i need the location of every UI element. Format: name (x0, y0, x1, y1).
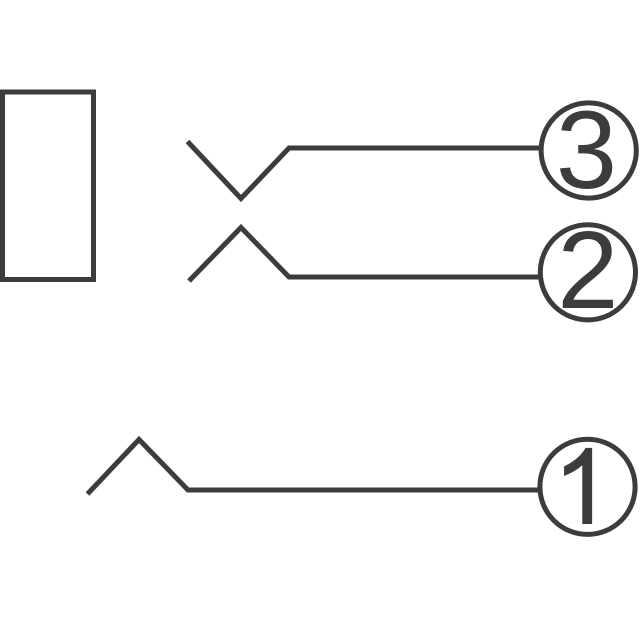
pin 1 number label (564, 448, 592, 524)
pin 1 contact arm (sleeve/ground) (88, 440, 542, 495)
pin 3 switch contact (tip normally-closed arm) (188, 142, 542, 199)
pin 3 terminal circle (541, 103, 636, 198)
jack body (sleeve rectangle) (3, 92, 94, 280)
svg-text:2: 2 (557, 209, 618, 332)
svg-text:3: 3 (556, 89, 617, 212)
pin 2 contact arm (tip) (189, 228, 541, 282)
pin 2 terminal circle (540, 225, 635, 320)
pin 1 terminal circle (540, 439, 635, 534)
